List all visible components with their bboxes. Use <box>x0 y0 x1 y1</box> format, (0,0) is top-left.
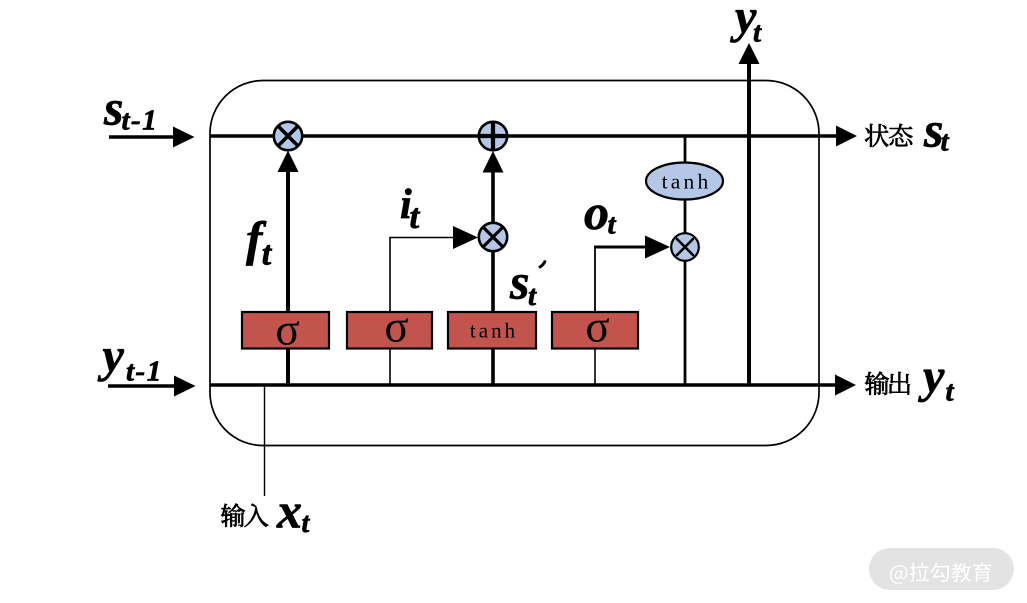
watermark pill @拉勾教育 <box>869 548 1014 590</box>
svg-text:t: t <box>753 17 762 49</box>
multiply node 2 (input gate) <box>479 223 507 251</box>
gate box sigma 1 (forget gate) <box>242 305 329 355</box>
label s_t prime (candidate state) <box>509 254 547 313</box>
svg-text:tanh: tanh <box>470 319 518 343</box>
wire: output-gate path o_t (box4 up then right into multiply node) <box>594 236 670 349</box>
svg-text:o: o <box>584 184 609 240</box>
label x_t <box>276 483 311 540</box>
gate box sigma 3 (output gate) <box>552 302 638 352</box>
wire: stub below box2 <box>389 348 391 385</box>
svg-text:t: t <box>262 236 273 273</box>
wire: input arrow y_t-1 <box>108 376 196 397</box>
wire: tanh branch vertical (state line down through tanh and multiply to output line) <box>684 136 687 385</box>
label s_t (state output) <box>923 102 950 158</box>
cell boundary rounded rectangle <box>210 81 819 446</box>
svg-text:s: s <box>103 80 123 136</box>
svg-text:σ: σ <box>384 302 408 352</box>
svg-text:t: t <box>410 197 421 236</box>
wire: y_t vertical output to top <box>739 43 760 385</box>
svg-text:y: y <box>918 350 945 403</box>
label y_t (output) <box>918 350 955 408</box>
wire: thin input lead x_t <box>264 386 266 496</box>
wire: input arrow s_t-1 <box>109 127 195 148</box>
label 输出 (output) <box>865 371 910 394</box>
label s_t-1 <box>103 80 158 137</box>
svg-text:t: t <box>946 376 955 408</box>
label o_t <box>584 184 617 241</box>
wire: candidate vertical (box3 up through multiply to add node) <box>483 151 504 385</box>
add node (on state line) <box>479 122 507 150</box>
svg-text:y: y <box>98 330 125 383</box>
wire: stub below box4 <box>594 348 596 385</box>
svg-text:t-1: t-1 <box>122 105 159 137</box>
multiply node 3 (output gate) <box>671 233 699 261</box>
label y_t (top output) <box>730 0 762 49</box>
label f_t <box>246 211 273 273</box>
gate box sigma 2 (input gate) <box>347 302 432 352</box>
svg-text:x: x <box>276 483 302 539</box>
svg-text:σ: σ <box>275 305 299 355</box>
label 输入 (input) <box>221 503 268 526</box>
svg-text:tanh: tanh <box>662 170 712 194</box>
svg-text:t: t <box>941 126 950 158</box>
svg-text:t: t <box>528 280 537 312</box>
svg-text:t: t <box>608 209 617 241</box>
svg-text:σ: σ <box>585 302 609 352</box>
wire: output line (bottom horizontal) <box>210 375 856 396</box>
svg-text:s: s <box>509 254 529 310</box>
gate box tanh (candidate) <box>448 312 536 349</box>
label 状态 (state) <box>865 124 912 147</box>
wire: forget-gate vertical f_t (box1 up to multiply node) <box>278 151 299 386</box>
svg-text:t-1: t-1 <box>126 356 163 388</box>
svg-text:t: t <box>302 508 311 539</box>
wire: input-gate path i_t (box2 up then right into multiply node) <box>390 226 478 348</box>
tanh ellipse <box>646 163 723 200</box>
label y_t-1 <box>98 330 163 388</box>
wire: state line (top horizontal) <box>210 126 857 147</box>
multiply node 1 (forget, on state line) <box>274 122 302 150</box>
label i_t <box>400 182 421 236</box>
